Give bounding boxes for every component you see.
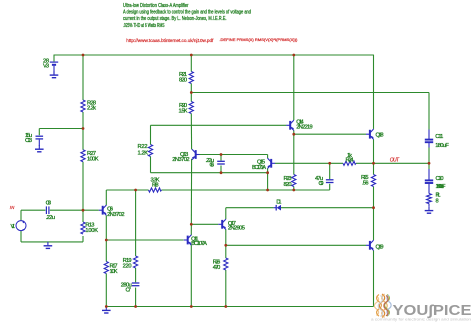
wire top rail corner down	[373, 55, 375, 129]
wire box left bottom	[150, 157, 152, 173]
junction R23 bottom	[292, 189, 295, 192]
resistor R17	[104, 262, 108, 274]
wire R17 to bottom rail	[105, 274, 107, 307]
wire C8 to Q6 base	[50, 209, 99, 211]
junction Q19 base tap	[224, 244, 227, 247]
svg-text:820: 820	[179, 78, 187, 84]
wire R19 to C7	[135, 268, 137, 282]
wire Q19 base line	[226, 244, 366, 246]
resistor R26	[224, 258, 228, 270]
wire y190 line left of R18	[106, 189, 148, 191]
wire y190 line right of R18	[162, 189, 330, 191]
svg-text:220: 220	[123, 263, 132, 269]
wire Q6 collector riser	[105, 190, 107, 205]
wire V1 return	[21, 241, 83, 243]
transistor Q17	[218, 219, 226, 229]
capacitor C10	[428, 169, 430, 180]
junction Q11 base tap	[105, 239, 108, 242]
wire Q13 base to Q15 corner	[199, 154, 267, 156]
wire D1 line right	[281, 207, 374, 209]
resistor RL	[427, 194, 432, 204]
svg-text:470: 470	[213, 265, 221, 271]
svg-text:2N2905: 2N2905	[228, 226, 245, 232]
svg-text:C9: C9	[319, 181, 324, 187]
wire C6 top stem	[220, 155, 222, 161]
svg-text:BC107A: BC107A	[191, 241, 207, 247]
wire D1 line left	[226, 207, 274, 209]
wire Q15 collector corner	[267, 155, 269, 159]
transistor Q15 (faces left)	[267, 158, 275, 168]
wire OUT to C10	[428, 163, 430, 169]
wire C9 bottom stem	[329, 184, 331, 190]
svg-text:100K: 100K	[85, 228, 98, 234]
wire R24 to OUT node	[356, 162, 429, 164]
junction bottom rail C7	[134, 305, 137, 308]
junction Q15 emitter box	[266, 171, 269, 174]
svg-text:C6: C6	[210, 163, 215, 169]
junction Q18 base tap	[292, 133, 295, 136]
capacitor C8	[46, 206, 49, 214]
wire C11 to OUT	[428, 148, 430, 164]
ground C13	[35, 145, 44, 152]
wire box left top	[150, 125, 152, 144]
junction R28 top rail	[82, 54, 85, 57]
wire y125.3 line box to Q14 base	[151, 124, 287, 126]
svg-text:BC171A: BC171A	[252, 165, 266, 171]
svg-text:1.2K: 1.2K	[138, 151, 149, 157]
svg-text:C8: C8	[46, 200, 52, 206]
svg-text:Ultra-low Distortion Class-A A: Ultra-low Distortion Class-A Amplifier	[123, 3, 189, 9]
svg-text:IN: IN	[10, 205, 15, 210]
svg-text:current in the output stage. B: current in the output stage. By L. Nelso…	[123, 16, 227, 22]
source V1	[16, 221, 26, 231]
svg-text:a community for electronic des: a community for electronic design and si…	[371, 317, 471, 321]
wire R23 to y190	[293, 187, 295, 191]
transistor Q19	[366, 240, 374, 250]
svg-text:A design using feedback to con: A design using feedback to control the g…	[123, 10, 251, 16]
transistor Q18	[366, 129, 374, 139]
svg-text:R22: R22	[138, 144, 148, 150]
ground RL	[425, 207, 434, 214]
resistor R28	[81, 100, 85, 112]
wire Q14 collector riser	[293, 55, 295, 120]
wire Q11 base line	[106, 239, 183, 241]
junction C13 branch	[82, 127, 85, 130]
svg-text:C7: C7	[126, 287, 132, 293]
diode D1	[274, 205, 281, 211]
capacitor C7	[132, 283, 140, 286]
wire x83 rail top to R28	[82, 55, 84, 100]
capacitor C11	[428, 130, 430, 140]
wire battery stub	[53, 55, 55, 61]
wire C13 drop	[38, 129, 40, 136]
wire R21 to R20	[190, 84, 192, 102]
wire Q18 emitter to out line	[373, 139, 375, 174]
wire bottom rail	[106, 306, 373, 308]
wire R28 to R27	[82, 112, 84, 150]
ground V1 return	[44, 242, 53, 249]
wire R13 bottom stub	[82, 236, 84, 242]
resistor R19	[134, 256, 138, 268]
junction Q14 collector top rail	[292, 54, 295, 57]
transistor Q14	[286, 120, 294, 130]
svg-text:.56: .56	[362, 181, 369, 187]
svg-text:C10: C10	[436, 176, 444, 182]
wire right column top	[428, 93, 430, 130]
junction bottom rail R17	[105, 305, 108, 308]
svg-text:OUT: OUT	[390, 158, 400, 164]
wire R27 to C8 node	[82, 162, 84, 210]
wire C6 bottom stem	[220, 166, 222, 173]
transistor Q11	[184, 235, 192, 245]
junction bottom rail Q11 emitter	[190, 305, 193, 308]
wire Q18 base line	[294, 133, 366, 135]
svg-text:2.2k: 2.2k	[87, 106, 96, 112]
resistor R13	[81, 222, 85, 234]
svg-text:Q19: Q19	[376, 244, 384, 250]
capacitor C6	[217, 161, 225, 164]
wire Q13 emitter down to Q11 collector	[190, 159, 192, 235]
wire Q17 collector down	[225, 230, 227, 259]
resistor R25	[371, 175, 375, 187]
wire Q19 emitter to bottom rail	[373, 251, 375, 307]
resistor R24	[343, 161, 356, 165]
wire R19 branch top	[135, 190, 137, 256]
wire Q14 emitter down	[293, 131, 295, 175]
wire x191 rail to R21	[190, 55, 192, 72]
junction R21-R20 node	[190, 91, 193, 94]
wire C13 branch horizontal	[39, 128, 83, 130]
junction OUT node	[428, 162, 431, 165]
resistor R22	[148, 145, 152, 157]
wire V1 bottom stub	[20, 231, 22, 242]
wire Q15 emitter drop	[267, 169, 269, 191]
resistor R21	[189, 72, 193, 84]
wire Q6 emitter to R17	[105, 216, 107, 262]
wire R13 top stub	[82, 210, 84, 222]
wire input to C8	[21, 209, 46, 211]
svg-text:2N3702: 2N3702	[172, 157, 189, 163]
wire top +V rail	[54, 54, 374, 56]
capacitor C9	[326, 180, 334, 183]
svg-text:10K: 10K	[110, 269, 118, 275]
svg-text:http://www.tcaas.btinternet.co: http://www.tcaas.btinternet.co.uk/nj10w.…	[126, 38, 214, 44]
svg-text:C13: C13	[25, 138, 32, 144]
wire R26 to bottom rail	[225, 270, 227, 307]
svg-text:R18: R18	[152, 182, 159, 188]
resistor R23	[292, 175, 296, 187]
ground bottom rail	[102, 307, 111, 314]
svg-text:8: 8	[436, 198, 439, 204]
junction Q17 base tap	[190, 223, 193, 226]
svg-text:.22u: .22u	[46, 215, 56, 221]
wire y92.5 rail	[191, 92, 429, 94]
capacitor C13	[36, 136, 44, 139]
wire R20 to Q13	[190, 114, 192, 150]
junction R25 output	[372, 162, 375, 165]
svg-text:Q18: Q18	[376, 132, 384, 138]
junction C9 top	[328, 162, 331, 165]
wire C9 top stem	[329, 163, 331, 179]
wire Q11 emitter down	[190, 245, 192, 306]
junction C8 R27 R13 node	[82, 209, 85, 212]
svg-text:2N2219: 2N2219	[296, 124, 313, 130]
junction Q15 emitter y190	[266, 189, 269, 192]
resistor R20	[189, 102, 193, 114]
wire V1 top stub	[20, 210, 22, 220]
resistor R18	[149, 188, 162, 192]
wire output y163.3 line	[275, 162, 343, 164]
junction R19 top	[134, 189, 137, 192]
svg-text:C11: C11	[435, 134, 443, 140]
svg-text:V1: V1	[11, 224, 16, 230]
junction C6 bottom	[220, 171, 223, 174]
wire R25 to Q19	[373, 187, 375, 241]
svg-text:V3: V3	[43, 63, 49, 69]
junction C6 top	[220, 153, 223, 156]
svg-text:1800uF: 1800uF	[436, 184, 447, 190]
svg-text:R24: R24	[346, 157, 354, 163]
svg-text:820: 820	[284, 182, 292, 188]
wire C7 to bottom rail	[135, 288, 137, 307]
svg-text:D1: D1	[276, 200, 281, 206]
wire y172.7 line	[151, 172, 268, 174]
svg-text:2N3702: 2N3702	[107, 212, 124, 218]
wire Q17 base line	[191, 223, 218, 225]
junction bottom rail R26	[224, 305, 227, 308]
junction D1 line right	[372, 206, 375, 209]
svg-text:100K: 100K	[87, 156, 99, 162]
junction R21 top rail	[190, 54, 193, 57]
svg-text:.025% THD at 6 Watts RMS: .025% THD at 6 Watts RMS	[123, 23, 165, 29]
svg-text:180uF: 180uF	[435, 143, 449, 149]
wire Q17 emitter riser	[225, 208, 227, 219]
ground V3	[50, 71, 59, 78]
transistor Q6	[99, 205, 107, 215]
battery V3	[50, 62, 58, 74]
svg-text:.DEFINE PRMS(X) RMS(V(X)*I(PRM: .DEFINE PRMS(X) RMS(V(X)*I(PRMS(X)))	[219, 38, 297, 42]
svg-text:1.5K: 1.5K	[179, 108, 188, 114]
resistor R27	[81, 150, 85, 162]
transistor Q13 (PNP, faces left)	[192, 149, 200, 159]
